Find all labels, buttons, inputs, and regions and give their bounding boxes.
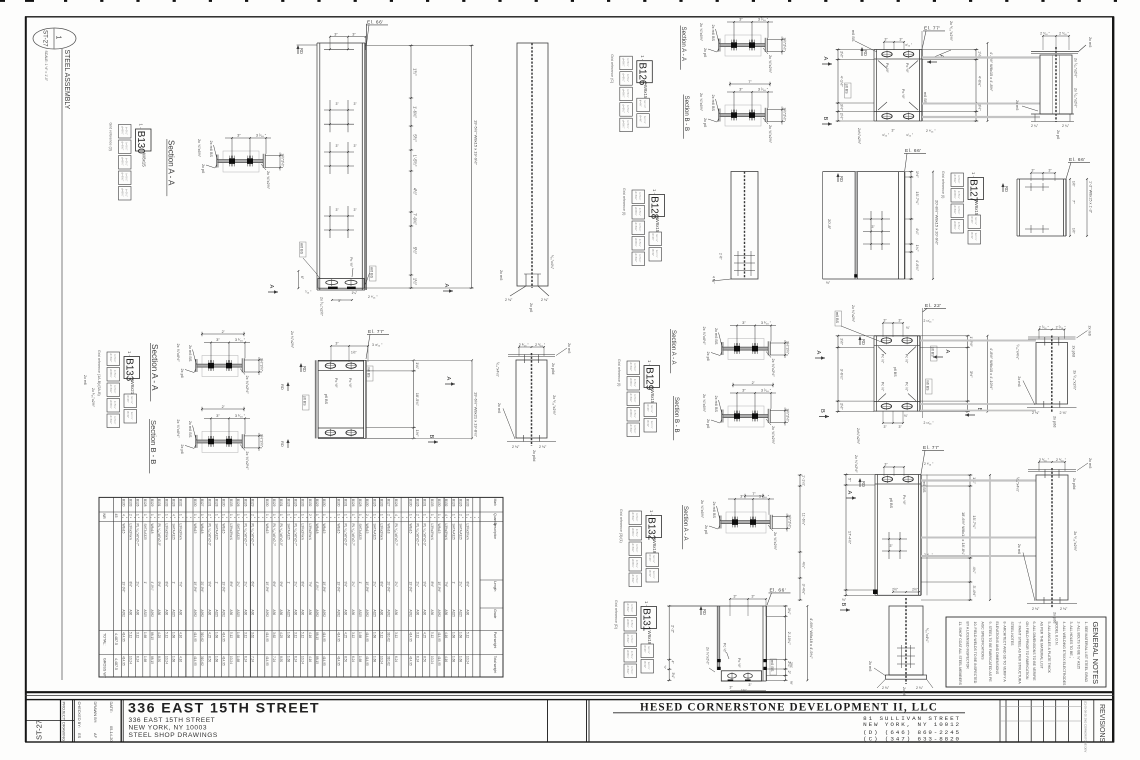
svg-text:DRAWING: DRAWING bbox=[62, 722, 67, 741]
svg-text:b=5¼": b=5¼" bbox=[638, 239, 642, 247]
svg-text:Pc ½": Pc ½" bbox=[905, 382, 909, 392]
svg-text:RD: RD bbox=[702, 609, 707, 615]
svg-text:2x m6 BS: 2x m6 BS bbox=[714, 328, 718, 345]
svg-text:B133: B133 bbox=[380, 499, 384, 507]
svg-text:2 ⁹⁄₁₆ ": 2 ⁹⁄₁₆ " bbox=[924, 462, 934, 466]
B127 overall dimension bbox=[1086, 179, 1088, 236]
svg-text:A992: A992 bbox=[437, 610, 441, 618]
B126 web bottom bracket bbox=[1031, 113, 1074, 115]
svg-text:2x p6: 2x p6 bbox=[180, 444, 184, 453]
B130 overall dimension bbox=[471, 46, 473, 289]
svg-text:4'-8½" W8x15 x 4'-10½": 4'-8½" W8x15 x 4'-10½" bbox=[989, 348, 994, 390]
svg-text:b=5¼": b=5¼" bbox=[638, 254, 642, 262]
svg-text:2x ⅝"x6½": 2x ⅝"x6½" bbox=[176, 419, 180, 438]
B126 slab gray lines bbox=[922, 56, 1040, 58]
svg-text:10.24: 10.24 bbox=[380, 656, 384, 664]
svg-text:3¼": 3¼" bbox=[671, 673, 675, 680]
svg-text:19'-9½": 19'-9½" bbox=[408, 582, 412, 593]
svg-text:b=5¼": b=5¼" bbox=[957, 222, 961, 230]
svg-text:A: A bbox=[846, 491, 852, 495]
B130 beam top edge extension bbox=[297, 44, 317, 46]
svg-text:SHTA A325: SHTA A325 bbox=[358, 524, 362, 540]
section cut A bbox=[443, 290, 453, 292]
svg-text:1.68: 1.68 bbox=[459, 656, 463, 662]
svg-text:A325: A325 bbox=[172, 610, 176, 618]
svg-text:d=8¼": d=8¼" bbox=[634, 238, 638, 247]
svg-text:L3½x3½x⅜: L3½x3½x⅜ bbox=[164, 524, 168, 541]
svg-text:¹³⁄₁₆ ": ¹³⁄₁₆ " bbox=[905, 43, 912, 47]
svg-text:2x p6d: 2x p6d bbox=[551, 363, 555, 374]
svg-text:A325: A325 bbox=[358, 610, 362, 618]
svg-text:2 ⁹⁄₁₆ ": 2 ⁹⁄₁₆ " bbox=[368, 295, 378, 299]
svg-text:Section A - A: Section A - A bbox=[670, 330, 677, 365]
section cut A bbox=[268, 291, 278, 293]
svg-text:310.62: 310.62 bbox=[200, 656, 204, 666]
svg-text:W8x18: W8x18 bbox=[315, 524, 319, 534]
svg-text:W8x15: W8x15 bbox=[265, 524, 269, 534]
svg-text:ST-27: ST-27 bbox=[42, 30, 49, 47]
svg-text:8- ARCHITECT AND SD TO VERIFY: 8- ARCHITECT AND SD TO VERIFY A bbox=[1003, 622, 1007, 683]
svg-text:¹¹⁄₁₆ ": ¹¹⁄₁₆ " bbox=[906, 133, 913, 137]
svg-text:2x ¾"x2½": 2x ¾"x2½" bbox=[851, 305, 855, 323]
B128 overall dimension bbox=[932, 172, 934, 279]
dimension chain bbox=[967, 336, 969, 412]
svg-text:1 -: 1 - bbox=[649, 510, 654, 515]
svg-text:2½"2½": 2½"2½" bbox=[281, 154, 285, 168]
svg-text:ON FIELD PRIOR TO FABRICATION: ON FIELD PRIOR TO FABRICATION bbox=[1025, 622, 1029, 680]
svg-text:10.24: 10.24 bbox=[466, 656, 470, 664]
svg-text:A: A bbox=[822, 57, 828, 61]
svg-text:B126: B126 bbox=[243, 499, 247, 507]
svg-text:b=5¼": b=5¼" bbox=[630, 635, 634, 643]
dimension bbox=[733, 384, 773, 386]
svg-text:414.95: 414.95 bbox=[437, 632, 441, 642]
svg-text:W8x15: W8x15 bbox=[322, 524, 326, 534]
svg-text:1.68: 1.68 bbox=[172, 656, 176, 662]
svg-text:tw=¼": tw=¼" bbox=[974, 217, 978, 225]
beam B128 elevation bbox=[822, 172, 824, 279]
svg-text:tf=⅜": tf=⅜" bbox=[648, 555, 652, 562]
svg-text:1'-2" W8x15 x 1'-3": 1'-2" W8x15 x 1'-3" bbox=[1089, 181, 1093, 214]
title block frame bbox=[26, 700, 1113, 742]
svg-text:19'-9½": 19'-9½" bbox=[437, 582, 441, 593]
table header column bbox=[479, 497, 481, 677]
svg-text:b=5¼": b=5¼" bbox=[635, 575, 639, 583]
section detail beam cross-section bbox=[725, 105, 761, 126]
svg-text:B126: B126 bbox=[294, 499, 298, 507]
svg-text:2x p6d: 2x p6d bbox=[1072, 478, 1076, 489]
svg-text:W8x18: W8x18 bbox=[387, 524, 391, 534]
svg-text:A: A bbox=[944, 350, 950, 354]
svg-text:SHTA A325: SHTA A325 bbox=[459, 524, 463, 540]
svg-text:A36: A36 bbox=[380, 610, 384, 616]
svg-text:Grid reference (3): Grid reference (3) bbox=[109, 123, 113, 151]
svg-text:1.68: 1.68 bbox=[451, 632, 455, 638]
svg-text:2x p6d: 2x p6d bbox=[1052, 416, 1056, 427]
svg-text:PL ⁵⁄₁₆"x6"x0'-7": PL ⁵⁄₁₆"x6"x0'-7" bbox=[250, 524, 254, 546]
svg-text:d=8¼": d=8¼" bbox=[109, 354, 113, 363]
svg-text:4.16: 4.16 bbox=[179, 632, 183, 638]
svg-text:7½": 7½" bbox=[308, 582, 312, 588]
svg-text:3": 3" bbox=[740, 494, 744, 499]
svg-text:STEEL ASSEMBLY: STEEL ASSEMBLY bbox=[63, 50, 70, 110]
svg-text:SHTA A325: SHTA A325 bbox=[215, 524, 219, 540]
svg-text:3'-6¾": 3'-6¾" bbox=[840, 369, 845, 381]
svg-text:2¼": 2¼" bbox=[394, 582, 398, 588]
svg-text:NR: NR bbox=[102, 514, 106, 520]
svg-text:tf=⅜": tf=⅜" bbox=[639, 100, 643, 107]
svg-text:1: 1 bbox=[437, 514, 441, 516]
svg-text:414.95: 414.95 bbox=[121, 656, 125, 666]
svg-text:B128: B128 bbox=[649, 196, 660, 219]
svg-text:tw=¼": tw=¼" bbox=[655, 234, 659, 242]
svg-text:1: 1 bbox=[157, 514, 161, 516]
svg-text:STEEL NOTES: STEEL NOTES bbox=[1010, 622, 1014, 647]
svg-text:4,487.5: 4,487.5 bbox=[114, 633, 118, 645]
svg-text:AF: AF bbox=[93, 733, 98, 739]
svg-text:PL ⁵⁄₁₆"x6"x0'-7": PL ⁵⁄₁₆"x6"x0'-7" bbox=[415, 524, 419, 546]
section detail beam cross-section bbox=[728, 406, 764, 427]
svg-text:2¼": 2¼" bbox=[372, 582, 376, 588]
svg-text:310.62: 310.62 bbox=[387, 632, 391, 642]
svg-text:d=8¼": d=8¼" bbox=[953, 221, 957, 230]
svg-text:ES: ES bbox=[77, 733, 82, 739]
svg-text:W8x15: W8x15 bbox=[337, 524, 341, 534]
svg-text:b=5¼": b=5¼" bbox=[957, 206, 961, 214]
svg-text:3 ¹⁄₁₆ ": 3 ¹⁄₁₆ " bbox=[758, 18, 769, 22]
svg-text:⅛": ⅛" bbox=[906, 326, 910, 330]
B130 elevation ref line bbox=[365, 24, 367, 290]
section cut B bbox=[822, 123, 832, 125]
svg-text:B133: B133 bbox=[301, 499, 305, 507]
svg-text:b=5¼": b=5¼" bbox=[125, 127, 129, 135]
svg-text:W8x15: W8x15 bbox=[121, 524, 125, 534]
svg-text:19'-9½": 19'-9½" bbox=[337, 582, 341, 593]
svg-text:1.68: 1.68 bbox=[459, 632, 463, 638]
B129 overall dimension bbox=[987, 336, 989, 412]
svg-text:W8x15: W8x15 bbox=[408, 524, 412, 534]
B133 extension lines bbox=[366, 359, 471, 361]
svg-text:tw=¼": tw=¼" bbox=[647, 662, 651, 670]
svg-text:3½": 3½" bbox=[978, 104, 982, 111]
svg-text:d=8¼": d=8¼" bbox=[109, 369, 113, 378]
svg-text:336 EAST 15TH STREET: 336 EAST 15TH STREET bbox=[129, 717, 216, 724]
svg-text:Pc ½": Pc ½" bbox=[737, 658, 741, 668]
svg-text:2x m6 BS: 2x m6 BS bbox=[711, 95, 715, 112]
svg-text:1': 1' bbox=[215, 582, 219, 585]
svg-text:3.12: 3.12 bbox=[351, 632, 355, 638]
svg-text:20'-8½" W8x15 x 20'-9½": 20'-8½" W8x15 x 20'-9½" bbox=[935, 200, 940, 245]
svg-text:1': 1' bbox=[286, 582, 290, 585]
svg-text:1: 1 bbox=[301, 514, 305, 516]
svg-text:Section A - A: Section A - A bbox=[166, 140, 175, 186]
svg-text:b=5¼": b=5¼" bbox=[633, 363, 637, 371]
svg-text:d=8¼": d=8¼" bbox=[626, 666, 630, 675]
svg-text:B133: B133 bbox=[229, 499, 233, 507]
svg-text:d=8¼": d=8¼" bbox=[631, 528, 635, 537]
svg-text:2x¾"x2½": 2x¾"x2½" bbox=[856, 428, 860, 445]
svg-text:2 ⁵⁄₁₆ ": 2 ⁵⁄₁₆ " bbox=[1039, 325, 1050, 329]
svg-text:2'-10¼": 2'-10¼" bbox=[787, 632, 791, 645]
B132 bottom-left plate mark bbox=[873, 590, 878, 595]
svg-text:1: 1 bbox=[243, 514, 247, 516]
svg-text:tw=¼": tw=¼" bbox=[650, 421, 654, 429]
svg-text:d=8¼": d=8¼" bbox=[120, 173, 124, 182]
RD datum arrow bbox=[300, 364, 302, 372]
svg-text:2 ⅛": 2 ⅛" bbox=[1060, 607, 1068, 611]
svg-text:b=5¼": b=5¼" bbox=[125, 189, 129, 197]
svg-text:tw=¼": tw=¼" bbox=[643, 100, 647, 108]
svg-text:1: 1 bbox=[193, 514, 197, 516]
svg-text:RD: RD bbox=[839, 176, 844, 182]
section cut A bbox=[445, 383, 455, 385]
svg-text:2½": 2½" bbox=[840, 403, 845, 410]
svg-text:CHECKED BY:: CHECKED BY: bbox=[77, 702, 82, 728]
svg-text:6.24: 6.24 bbox=[294, 656, 298, 662]
svg-text:2½": 2½" bbox=[840, 113, 845, 120]
svg-text:2 ⁵⁄₁₆ ": 2 ⁵⁄₁₆ " bbox=[1039, 458, 1050, 462]
B128 web gray bar bbox=[855, 172, 857, 279]
svg-text:2½"2½": 2½"2½" bbox=[783, 38, 787, 52]
B129 slab gray lines bbox=[920, 340, 1036, 342]
svg-text:STEEL SHOP DRAWINGS: STEEL SHOP DRAWINGS bbox=[129, 732, 218, 739]
svg-text:1.68: 1.68 bbox=[372, 632, 376, 638]
svg-text:4'-6½" W8x18 x 4'-9¾": 4'-6½" W8x18 x 4'-9¾" bbox=[809, 618, 814, 659]
svg-text:2 ⁹⁄₁₆ ": 2 ⁹⁄₁₆ " bbox=[926, 129, 936, 133]
svg-text:⁷⁄₁₆ ": ⁷⁄₁₆ " bbox=[305, 290, 312, 294]
svg-text:B128: B128 bbox=[215, 499, 219, 507]
svg-text:8.50: 8.50 bbox=[279, 656, 283, 662]
svg-text:RD: RD bbox=[863, 50, 868, 56]
svg-text:A: A bbox=[268, 285, 274, 289]
beam B126 web view bbox=[1040, 55, 1072, 114]
svg-text:4'-9¾": 4'-9¾" bbox=[150, 582, 154, 591]
svg-text:414.95: 414.95 bbox=[322, 656, 326, 666]
svg-text:Length: Length bbox=[493, 581, 497, 591]
svg-text:L3½x3½x⅜: L3½x3½x⅜ bbox=[179, 524, 183, 541]
svg-text:Grid reference (I): Grid reference (I) bbox=[617, 359, 621, 386]
date drawn checked cells bbox=[120, 700, 122, 742]
svg-text:2½": 2½" bbox=[912, 588, 919, 592]
svg-text:B132: B132 bbox=[646, 517, 657, 540]
svg-text:B126: B126 bbox=[636, 63, 647, 86]
svg-text:A36: A36 bbox=[351, 610, 355, 616]
svg-text:m6 BS: m6 BS bbox=[835, 312, 839, 324]
svg-text:2x m6: 2x m6 bbox=[1017, 544, 1021, 554]
svg-text:B128: B128 bbox=[358, 499, 362, 507]
svg-text:L3½x3½x⅜: L3½x3½x⅜ bbox=[444, 524, 448, 541]
section cut B bbox=[819, 416, 829, 418]
section detail beam cross-section bbox=[202, 431, 238, 452]
svg-text:1: 1 bbox=[322, 514, 326, 516]
svg-text:3.62: 3.62 bbox=[250, 632, 254, 638]
svg-text:A36: A36 bbox=[415, 610, 419, 616]
svg-text:2': 2' bbox=[752, 381, 755, 385]
svg-text:5.12: 5.12 bbox=[430, 632, 434, 638]
svg-text:2½": 2½" bbox=[892, 588, 899, 592]
svg-text:2x p6: 2x p6 bbox=[706, 419, 710, 428]
svg-text:2x¾"x2½": 2x¾"x2½" bbox=[857, 128, 861, 145]
svg-text:414.95: 414.95 bbox=[337, 656, 341, 666]
svg-text:1½": 1½" bbox=[351, 351, 357, 355]
svg-text:Section A - A: Section A - A bbox=[680, 27, 687, 62]
svg-text:Pc ½": Pc ½" bbox=[348, 378, 352, 388]
svg-text:b=5¼": b=5¼" bbox=[633, 425, 637, 433]
svg-text:1: 1 bbox=[222, 514, 226, 516]
svg-text:1¼": 1¼" bbox=[915, 245, 920, 252]
svg-text:1.68: 1.68 bbox=[172, 632, 176, 638]
svg-text:1.68: 1.68 bbox=[236, 632, 240, 638]
svg-text:A36: A36 bbox=[129, 610, 133, 616]
svg-text:B129: B129 bbox=[150, 499, 154, 507]
svg-text:m6 BS: m6 BS bbox=[851, 30, 855, 42]
svg-text:2x m6: 2x m6 bbox=[499, 270, 503, 280]
beam B131 web view bbox=[889, 606, 923, 675]
svg-text:L3½x3½x⅜: L3½x3½x⅜ bbox=[129, 524, 133, 541]
svg-text:19'-9½": 19'-9½" bbox=[322, 582, 326, 593]
svg-text:B129: B129 bbox=[272, 499, 276, 507]
svg-text:1: 1 bbox=[408, 514, 412, 516]
B127 bolt ticks bbox=[1030, 183, 1032, 191]
svg-text:A36: A36 bbox=[444, 610, 448, 616]
svg-text:4.25: 4.25 bbox=[207, 632, 211, 638]
svg-text:tw=¼": tw=¼" bbox=[974, 233, 978, 241]
svg-text:11- SHOP COAT ALL STEEL MEMBER: 11- SHOP COAT ALL STEEL MEMBERS bbox=[958, 622, 962, 686]
B130 base plate bbox=[318, 279, 364, 289]
svg-text:SCALE: 1 ½" = 1'-0": SCALE: 1 ½" = 1'-0" bbox=[44, 51, 48, 82]
svg-text:2: 2 bbox=[387, 514, 391, 516]
B131 web top dims bbox=[893, 591, 919, 593]
svg-text:2 ⁵⁄₁₆ ": 2 ⁵⁄₁₆ " bbox=[535, 343, 546, 347]
svg-text:B126: B126 bbox=[351, 499, 355, 507]
svg-text:19'-9½": 19'-9½" bbox=[265, 582, 269, 593]
svg-text:88.15: 88.15 bbox=[150, 632, 154, 640]
section cut A bbox=[927, 61, 937, 63]
svg-text:b=5¼": b=5¼" bbox=[635, 560, 639, 568]
svg-text:A325: A325 bbox=[236, 610, 240, 618]
B131 black bolts bbox=[717, 659, 720, 662]
svg-text:HESED CORNERSTONE DEVELOPMENT: HESED CORNERSTONE DEVELOPMENT II, LLC bbox=[640, 702, 938, 714]
svg-text:d=8¼": d=8¼" bbox=[629, 409, 633, 418]
svg-text:5.12: 5.12 bbox=[466, 632, 470, 638]
svg-text:d=8¼": d=8¼" bbox=[634, 207, 638, 216]
svg-text:20'-8": 20'-8" bbox=[827, 219, 832, 230]
svg-text:2x m6: 2x m6 bbox=[1017, 376, 1021, 386]
svg-text:A325: A325 bbox=[372, 610, 376, 618]
svg-text:17'-4½": 17'-4½" bbox=[848, 531, 853, 545]
svg-text:d=8¼": d=8¼" bbox=[622, 89, 626, 98]
svg-text:A36: A36 bbox=[344, 610, 348, 616]
section detail beam cross-section bbox=[725, 35, 761, 56]
svg-text:b=5¼": b=5¼" bbox=[630, 604, 634, 612]
svg-text:RD: RD bbox=[861, 339, 866, 345]
svg-text:A992: A992 bbox=[222, 610, 226, 618]
svg-text:d=8¼": d=8¼" bbox=[631, 559, 635, 568]
svg-text:2x ¾"x2½": 2x ¾"x2½" bbox=[773, 532, 777, 551]
svg-text:336 EAST 15TH STREET: 336 EAST 15TH STREET bbox=[128, 701, 320, 717]
svg-text:B126: B126 bbox=[459, 499, 463, 507]
svg-text:1 -: 1 - bbox=[644, 601, 649, 606]
svg-text:Section A - A: Section A - A bbox=[682, 506, 689, 541]
svg-text:A36: A36 bbox=[272, 610, 276, 616]
svg-text:2x ⁵⁄₁₆"x2½": 2x ⁵⁄₁₆"x2½" bbox=[1073, 531, 1077, 552]
B128 web bottom angle bbox=[712, 279, 731, 281]
svg-text:SHTA A325: SHTA A325 bbox=[451, 524, 455, 540]
dimension bbox=[730, 83, 770, 85]
svg-text:Section A - A: Section A - A bbox=[150, 344, 159, 391]
svg-text:4'-1½": 4'-1½" bbox=[840, 76, 845, 88]
svg-text:3.12: 3.12 bbox=[415, 632, 419, 638]
svg-text:3 ¹⁄₁₆ ": 3 ¹⁄₁₆ " bbox=[235, 414, 246, 418]
svg-text:1: 1 bbox=[236, 514, 240, 516]
svg-text:½": ½" bbox=[789, 681, 793, 685]
svg-text:6½": 6½" bbox=[272, 582, 276, 588]
general notes box bbox=[946, 617, 1106, 687]
svg-text:9½": 9½" bbox=[207, 582, 211, 588]
svg-text:⁵⁄₁₆"x4¼": ⁵⁄₁₆"x4¼" bbox=[1016, 477, 1020, 493]
svg-text:1½": 1½" bbox=[413, 68, 418, 76]
section cut B bbox=[965, 414, 975, 416]
section detail beam cross-section bbox=[726, 512, 766, 533]
svg-text:6.24: 6.24 bbox=[351, 656, 355, 662]
margin divider line bbox=[61, 49, 63, 680]
svg-text:1¼": 1¼" bbox=[352, 291, 358, 295]
svg-text:MODEL U.O.N.: MODEL U.O.N. bbox=[1054, 622, 1058, 646]
svg-text:W8x15: W8x15 bbox=[650, 390, 655, 404]
svg-text:b=5¼": b=5¼" bbox=[626, 105, 630, 113]
svg-text:2x m6 BS: 2x m6 BS bbox=[209, 141, 213, 158]
table totals columns bbox=[112, 497, 114, 677]
svg-text:Grid reference (C): Grid reference (C) bbox=[610, 54, 614, 83]
svg-text:2x ⅝"x6½": 2x ⅝"x6½" bbox=[702, 327, 706, 346]
svg-text:A992: A992 bbox=[200, 610, 204, 618]
svg-text:b=5¼": b=5¼" bbox=[630, 651, 634, 659]
svg-text:4'-6¾": 4'-6¾" bbox=[915, 260, 920, 272]
svg-text:1.68: 1.68 bbox=[286, 656, 290, 662]
svg-text:1 -: 1 - bbox=[127, 351, 132, 356]
svg-text:B133: B133 bbox=[466, 499, 470, 507]
svg-text:RD: RD bbox=[280, 384, 285, 390]
beam web view B129 bbox=[1036, 343, 1068, 405]
svg-text:d=8¼": d=8¼" bbox=[634, 254, 638, 263]
svg-text:b=5¼": b=5¼" bbox=[957, 191, 961, 199]
svg-text:2x p6: 2x p6 bbox=[180, 369, 184, 378]
svg-text:3 ¹⁄₁₆ ": 3 ¹⁄₁₆ " bbox=[761, 321, 772, 325]
svg-text:5½": 5½" bbox=[413, 134, 418, 142]
svg-text:2x m6 BS: 2x m6 BS bbox=[188, 421, 192, 438]
svg-text:B130: B130 bbox=[437, 499, 441, 507]
svg-text:d=8¼": d=8¼" bbox=[631, 575, 635, 584]
svg-text:10- FIELD WELDS TO BE INSPECTE: 10- FIELD WELDS TO BE INSPECTED bbox=[973, 622, 977, 684]
B126 top dims bbox=[884, 41, 904, 43]
svg-text:Pc ½": Pc ½" bbox=[881, 382, 885, 392]
B128 web bolt cluster bbox=[737, 251, 739, 276]
svg-text:B128: B128 bbox=[451, 499, 455, 507]
svg-text:d=8¼": d=8¼" bbox=[109, 416, 113, 425]
B128 mid bolt cluster bbox=[870, 211, 872, 250]
svg-text:b=5¼": b=5¼" bbox=[630, 620, 634, 628]
svg-text:9½": 9½" bbox=[279, 582, 283, 588]
svg-text:10.24: 10.24 bbox=[301, 656, 305, 664]
svg-text:Grade: Grade bbox=[493, 609, 497, 618]
svg-text:2x ⅝"x6½": 2x ⅝"x6½" bbox=[197, 139, 201, 158]
svg-text:2x ¾"x2½": 2x ¾"x2½" bbox=[768, 125, 772, 144]
svg-text:b=5¼": b=5¼" bbox=[630, 666, 634, 674]
svg-text:p6 BS: p6 BS bbox=[324, 394, 328, 405]
svg-text:L3½x3½x⅜: L3½x3½x⅜ bbox=[466, 524, 470, 541]
svg-text:2x ¾"x2½": 2x ¾"x2½" bbox=[245, 451, 249, 470]
svg-text:1.68: 1.68 bbox=[143, 632, 147, 638]
